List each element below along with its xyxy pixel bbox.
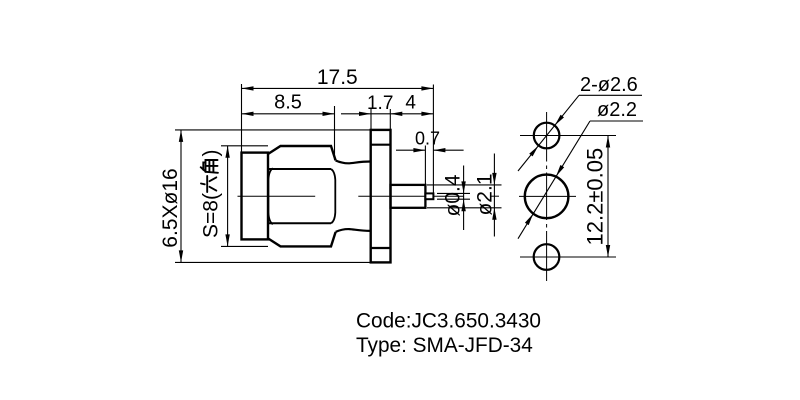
center hole (Φ2.2)	[525, 175, 569, 219]
flange body	[371, 130, 391, 263]
svg-text:): )	[200, 150, 223, 157]
vertical center line (right view)	[546, 112, 548, 281]
svg-text:8.5: 8.5	[274, 92, 302, 114]
dimension 12.2±0.05	[583, 136, 611, 258]
middle hole crosshair	[519, 195, 576, 197]
extension line dielectric end (x=425.4)	[424, 146, 426, 185]
svg-text:12.2±0.05: 12.2±0.05	[583, 148, 608, 246]
dimension Φ0.4	[437, 166, 470, 231]
svg-text:1.7: 1.7	[367, 93, 393, 114]
extension line flange left (x=371)	[370, 109, 372, 130]
extension line flange right (x=390.3)	[389, 109, 391, 130]
extension line left (x=241.5)	[241, 84, 243, 153]
hex chamfer arc right	[331, 169, 335, 223]
bottom hole crosshair	[520, 256, 616, 258]
dimension 8.5	[242, 92, 335, 117]
leader 2-Φ2.6	[518, 74, 642, 171]
dimension 6.5XΦ16	[159, 130, 371, 263]
mounting hole top (Φ2.6)	[534, 123, 560, 149]
neck top edge	[336, 161, 371, 164]
dielectric bushing	[391, 185, 426, 208]
svg-text:Type: SMA-JFD-34: Type: SMA-JFD-34	[356, 334, 533, 357]
type text	[356, 334, 533, 357]
center line (left view)	[238, 195, 500, 197]
dimension S=8(hex)	[200, 146, 269, 247]
dimension 0.7	[396, 129, 464, 153]
dimension 17.5	[242, 66, 434, 91]
svg-text:4: 4	[405, 93, 416, 114]
dimension Φ2.1	[427, 154, 502, 237]
svg-text:ø2.1: ø2.1	[474, 173, 497, 215]
svg-text:ø0.4: ø0.4	[442, 174, 465, 216]
svg-text:0.7: 0.7	[415, 129, 440, 149]
svg-text:Code:JC3.650.3430: Code:JC3.650.3430	[356, 310, 541, 333]
svg-text:6.5Xø16: 6.5Xø16	[159, 168, 182, 247]
mounting hole bottom (Φ2.6)	[534, 244, 560, 270]
svg-text:17.5: 17.5	[317, 66, 358, 89]
svg-text:2-ø2.6: 2-ø2.6	[580, 74, 638, 96]
svg-text:S=8(: S=8(	[200, 193, 223, 238]
flange hole line bottom	[371, 247, 391, 249]
hex chamfer arc left	[268, 168, 272, 224]
connector front body	[242, 153, 269, 240]
dimension 1.7	[341, 93, 393, 116]
hex nut silhouette	[268, 146, 336, 246]
hex face line lower	[269, 222, 332, 224]
svg-text:ø2.2: ø2.2	[597, 99, 637, 121]
extension line pin tip (x=433.4)	[432, 85, 434, 194]
hex face line upper	[269, 168, 332, 170]
extension line hex end (x=334.5)	[334, 106, 336, 160]
leader Φ2.2	[518, 99, 643, 239]
code text	[356, 310, 541, 333]
top hole crosshair	[520, 135, 616, 137]
dimension 4	[390, 93, 433, 117]
center pin	[425, 193, 433, 199]
neck bottom edge	[336, 229, 371, 232]
flange hole line top	[371, 144, 391, 146]
